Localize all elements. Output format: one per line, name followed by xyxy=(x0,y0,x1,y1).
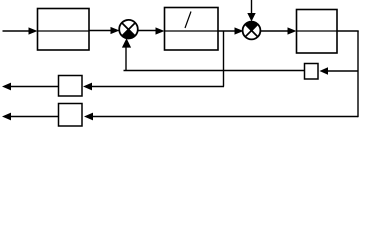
wire S2 to block G3 xyxy=(261,27,297,34)
box B2 (lower output box) xyxy=(59,104,83,127)
block G3 (right transfer-function block) xyxy=(297,10,338,54)
right vertical feedback bus xyxy=(357,31,359,117)
sensor box H1 (small feedback box) xyxy=(305,64,319,80)
output arrow from B2 xyxy=(2,113,58,121)
wire H1 to S1 (horizontal run, then up) xyxy=(124,70,305,72)
summing junction S2 (multiplier circle, top sector filled) xyxy=(243,22,261,40)
take-off after G2, vertical drop xyxy=(223,31,225,87)
output wire from G3 to right branch xyxy=(337,30,359,32)
summing junction S1 (multiplier circle, bottom sector filled) xyxy=(119,20,138,39)
wire G1 to summing junction S1 xyxy=(89,27,120,34)
wire bus to sensor box H1 xyxy=(320,67,359,74)
arrow into S1 from below xyxy=(122,38,131,70)
wire G2 to summing junction S2 xyxy=(218,27,244,34)
arrow into S2 from top xyxy=(247,0,255,22)
block G1 (left transfer-function block) xyxy=(38,9,90,51)
box B1 (upper output box) xyxy=(59,76,83,97)
wire S1 to block G2 xyxy=(138,27,165,34)
block G2 (integrator block with slash) xyxy=(165,8,219,51)
wire bottom bus to box B2 xyxy=(84,113,358,121)
input arrow xyxy=(3,27,38,34)
output arrow from B1 xyxy=(2,83,58,91)
wire take-off to box B1 xyxy=(83,83,224,91)
